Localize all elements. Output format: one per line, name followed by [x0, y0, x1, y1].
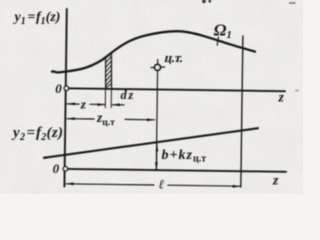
faint speck near axis end	[295, 89, 299, 91]
strip edge extension lines below axis	[104, 89, 106, 108]
curve y1=f1(z)	[52, 31, 255, 72]
ц.т. label	[163, 50, 185, 65]
top-edge cropped mark left	[202, 0, 206, 3]
dimension l	[66, 182, 241, 187]
ц.т. vertical line	[156, 60, 157, 171]
curve left end blob	[52, 70, 55, 73]
paper grain overlay	[0, 0, 303, 194]
dimension b+kz_ц.т (vertical double arrow)	[155, 143, 158, 170]
dz pointer arrow	[112, 103, 124, 106]
ц.т. crosshair horizontal ticks	[151, 66, 165, 69]
y1 axis (left vertical line, continuous through both graphs)	[64, 9, 66, 187]
label y1=f1(z)	[13, 10, 61, 27]
hatched strip dz	[106, 54, 112, 88]
top-edge cropped mark right	[289, 2, 296, 4]
right boundary vertical line	[241, 36, 243, 187]
bottom z axis	[66, 169, 286, 172]
dimension z (origin to strip)	[67, 103, 105, 107]
rising line left end blob	[44, 156, 47, 159]
ц.т. point circle	[155, 65, 161, 71]
label y2=f2(z)	[11, 125, 63, 143]
dimension z_ц.т	[67, 117, 155, 121]
top z axis	[66, 88, 285, 91]
origin O (top graph)	[64, 86, 68, 90]
origin O (bottom graph)	[63, 167, 67, 171]
Omega tick on curve	[217, 37, 218, 45]
bottom rising line y2=f2(z)	[44, 128, 258, 158]
